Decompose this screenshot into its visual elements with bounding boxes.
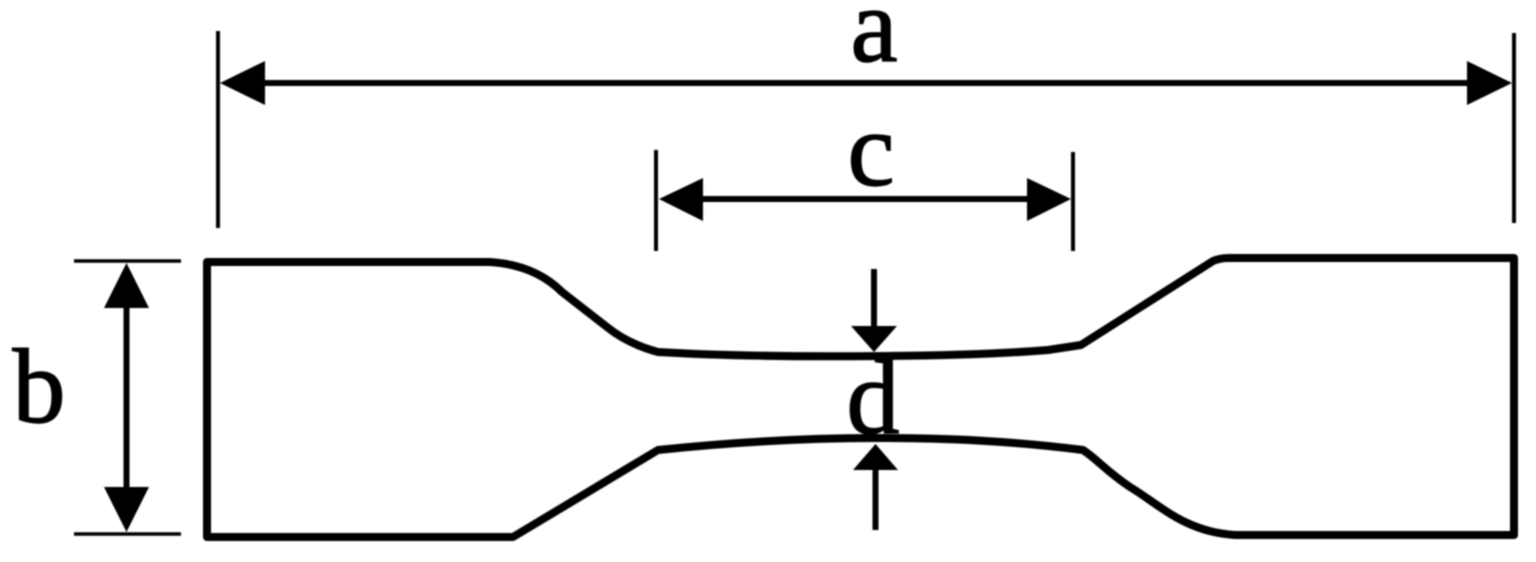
dimension c: left tick [654,150,658,251]
svg-text:c: c [847,91,894,208]
dimension c: right arrowhead [1027,178,1071,221]
dimension a: arrow line [252,80,1480,86]
dimension a: right arrowhead [1467,61,1512,105]
dimension b: bottom tick [74,532,181,536]
dimension b: arrow line [124,295,130,500]
dimension a: left extension line [216,31,220,228]
dimension d: upper arrow stem [871,269,877,330]
dimension c: left arrowhead [659,178,703,221]
dimension a: right extension line [1512,33,1516,223]
dimension d: lower arrow stem [873,468,879,530]
dimension b: bottom arrowhead [104,487,149,532]
dimension c: right tick [1071,152,1075,251]
specimen outline [207,258,1514,537]
svg-text:a: a [850,0,897,84]
svg-text:d: d [847,339,900,456]
dimension b: top arrowhead [104,263,149,308]
dimension b: top tick [74,259,181,263]
dimension d: lower arrowhead (points up) [853,444,898,470]
svg-text:b: b [13,328,66,445]
dimension a: left arrowhead [220,61,265,105]
dimension d: upper arrowhead (points down) [851,326,897,352]
dimension c: arrow line [688,196,1042,202]
